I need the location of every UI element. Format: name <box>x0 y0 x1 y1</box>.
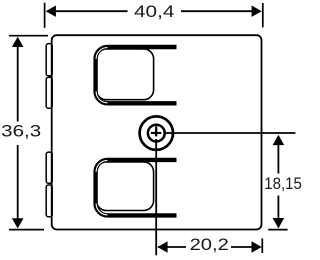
mounting tab 2 <box>46 77 52 108</box>
dim 18,15 line upper segment with up arrow <box>277 136 279 174</box>
centerline vertical <box>155 139 157 255</box>
dim 40,4 line left segment <box>50 10 128 12</box>
lower button inner outline <box>96 162 153 211</box>
dim 36,3 line lower segment <box>17 145 19 223</box>
dim 20,2 arrow right <box>252 241 262 253</box>
dim 18,15 arrow down <box>273 218 285 228</box>
centerline horizontal <box>164 132 296 134</box>
svg-text:40,4: 40,4 <box>134 3 174 21</box>
mounting tab 4 <box>46 185 52 217</box>
dim 18,15 extension line bottom <box>268 229 287 231</box>
svg-text:18,15: 18,15 <box>264 175 302 193</box>
body outline <box>52 35 262 229</box>
upper button thick frame <box>96 47 177 103</box>
svg-text:20,2: 20,2 <box>190 236 229 254</box>
lower button thick frame <box>96 160 177 216</box>
dim 20,2 line left segment with left arrow <box>158 246 186 248</box>
centerline cross horizontal arm <box>151 132 161 134</box>
center mark outer circle <box>140 116 173 149</box>
dim 18,15 line lower segment <box>277 196 279 228</box>
dim 40,4 line right segment <box>181 10 255 12</box>
mounting tab 3 <box>46 152 52 183</box>
dim 36,3 extension line bottom <box>9 229 44 231</box>
dim 40,4 arrow left <box>46 6 56 17</box>
dim 36,3 arrow top <box>12 37 24 47</box>
dim 40,4 extension line left <box>44 3 46 28</box>
upper button inner outline <box>96 49 153 100</box>
lower button corner sliver bottom-left <box>96 204 107 215</box>
dim 18,15 arrow up <box>273 135 285 145</box>
dim 20,2 arrow left <box>157 241 167 253</box>
center mark inner circle <box>148 125 165 142</box>
centerline cross vertical arm <box>155 126 157 136</box>
svg-text:36,3: 36,3 <box>1 122 41 140</box>
dim 36,3 arrow bottom <box>12 218 24 228</box>
dim 40,4 extension line right <box>262 3 264 27</box>
mounting tab 1 <box>46 44 52 76</box>
lower button corner sliver top-left <box>96 160 107 171</box>
dim 36,3 extension line top <box>9 35 48 37</box>
dim 36,3 line upper segment <box>17 42 19 122</box>
dim 40,4 arrow right <box>252 6 262 17</box>
dim 20,2 extension line right <box>261 239 263 254</box>
upper button corner sliver top-left <box>96 48 107 59</box>
upper button corner sliver bottom-left <box>96 91 107 102</box>
dim 20,2 line right segment <box>231 246 255 248</box>
